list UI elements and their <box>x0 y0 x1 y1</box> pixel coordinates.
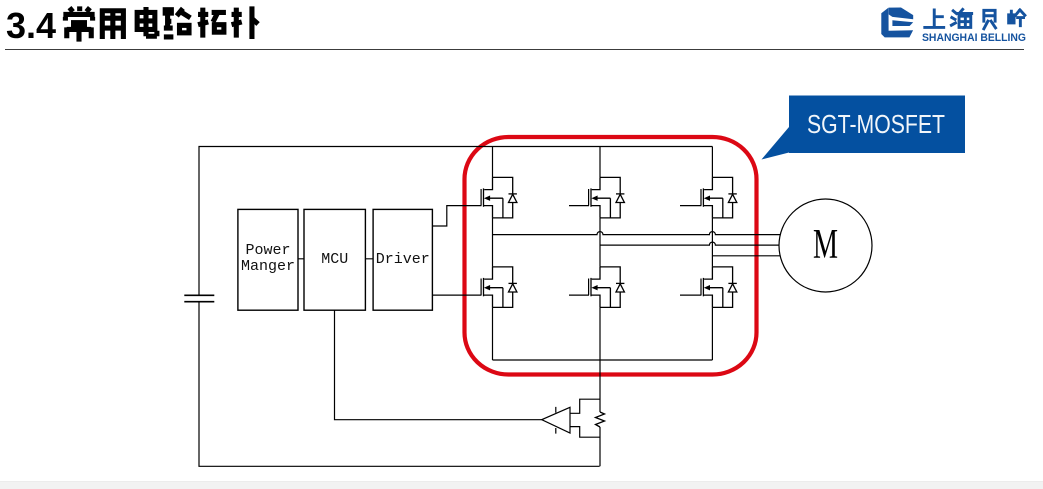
svg-text:SHANGHAI BELLING: SHANGHAI BELLING <box>922 32 1026 44</box>
svg-text:3.4: 3.4 <box>6 5 56 46</box>
svg-text:SGT-MOSFET: SGT-MOSFET <box>807 111 945 139</box>
svg-text:Power: Power <box>245 242 290 259</box>
svg-text:Manger: Manger <box>241 258 295 275</box>
svg-text:Driver: Driver <box>376 251 430 268</box>
svg-text:M: M <box>813 222 838 268</box>
svg-text:MCU: MCU <box>321 251 348 268</box>
